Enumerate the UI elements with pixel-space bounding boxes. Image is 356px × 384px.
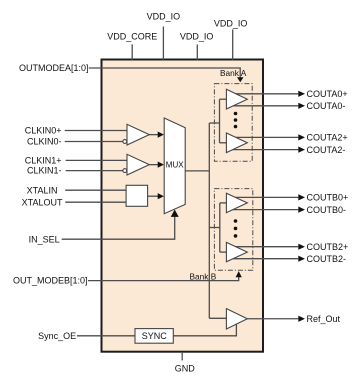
svg-text:CLKIN1+: CLKIN1+: [25, 156, 62, 166]
wire COUTA2-: [230, 149, 298, 151]
arrowhead COUTA2-: [298, 147, 305, 153]
svg-text:IN_SEL: IN_SEL: [29, 234, 60, 244]
arrowhead COUTB2+: [298, 244, 305, 250]
arrowhead COUTB0+: [298, 194, 305, 200]
arrowhead buffer0 to MUX: [158, 132, 164, 138]
wire COUTB2-: [230, 258, 298, 260]
wire IN_SEL to MUX select: [62, 216, 175, 239]
wire buffer0 to MUX: [149, 134, 158, 136]
svg-text:XTALOUT: XTALOUT: [22, 197, 63, 207]
wire MUX output to trunk: [185, 170, 209, 172]
svg-text:COUTA0-: COUTA0-: [307, 101, 346, 111]
chip body U1: [102, 60, 264, 352]
arrowhead into Bank A: [237, 77, 244, 82]
svg-text:COUTA2+: COUTA2+: [307, 133, 348, 143]
wire CLKIN1+: [66, 159, 127, 161]
svg-text:SYNC: SYNC: [142, 331, 168, 341]
buffer input CLKIN0: [127, 124, 149, 145]
arrowhead buffer1 to MUX: [158, 162, 164, 168]
wire feed to buffer B2: [220, 251, 227, 253]
arrowhead COUTA0+: [298, 91, 305, 97]
svg-text:Bank B: Bank B: [190, 271, 217, 281]
wire Ref_Out: [247, 318, 298, 320]
dots bank A: [234, 112, 238, 129]
wire COUTB2+: [230, 246, 298, 248]
svg-text:VDD_CORE: VDD_CORE: [107, 32, 157, 42]
crystal cell XTAL: [126, 185, 148, 206]
wire Sync_OE: [77, 335, 135, 337]
wire XTAL to MUX: [148, 195, 158, 197]
svg-text:VDD_IO: VDD_IO: [147, 12, 181, 22]
wire XTALOUT: [65, 201, 126, 203]
wire CLKIN0+: [65, 130, 127, 132]
svg-text:COUTA2-: COUTA2-: [307, 145, 346, 155]
buffer A0: [226, 89, 247, 109]
wire bank A feed vertical: [219, 99, 221, 143]
svg-text:COUTB2+: COUTB2+: [307, 242, 349, 252]
svg-text:XTALIN: XTALIN: [27, 185, 58, 195]
svg-text:GND: GND: [175, 363, 196, 373]
wire COUTA0+: [230, 93, 298, 95]
inversion bubble CLKIN0-: [123, 140, 127, 144]
svg-text:MUX: MUX: [166, 160, 184, 169]
wire feed to buffer A2: [220, 142, 227, 144]
arrowhead into Bank B: [236, 271, 242, 277]
buffer B2: [226, 242, 247, 261]
svg-text:CLKIN1-: CLKIN1-: [27, 166, 62, 176]
wire trunk vertical: [208, 123, 210, 318]
svg-text:VDD_IO: VDD_IO: [180, 32, 214, 42]
svg-text:VDD_IO: VDD_IO: [214, 18, 248, 28]
wire trunk to Ref_Out buffer: [209, 317, 226, 319]
arrowhead COUTA0-: [298, 103, 305, 109]
bank A dashed box: [214, 84, 252, 162]
buffer input CLKIN1: [127, 154, 149, 175]
arrowhead XTAL to MUX: [158, 193, 164, 199]
wire SYNC to Ref_Out buffer: [173, 324, 236, 336]
wire buffer1 to MUX: [149, 164, 158, 166]
sync cell SYNC: [135, 329, 173, 344]
svg-text:Bank A: Bank A: [220, 68, 247, 78]
wire CLKIN0-: [65, 141, 123, 143]
wire trunk to bank A feed: [209, 122, 219, 124]
wire COUTA0-: [230, 105, 298, 107]
svg-text:CLKIN0+: CLKIN0+: [25, 126, 62, 136]
svg-text:COUTA0+: COUTA0+: [307, 89, 348, 99]
wire feed to buffer A0: [220, 98, 227, 100]
wire COUTB0-: [230, 209, 298, 211]
inversion bubble CLKIN1-: [123, 169, 127, 173]
wire feed to buffer B0: [220, 202, 227, 204]
svg-text:OUT_MODEB[1:0]: OUT_MODEB[1:0]: [13, 276, 88, 286]
wire GND pin: [181, 352, 183, 360]
dots bank B: [234, 219, 238, 238]
arrowhead COUTB2-: [298, 256, 305, 262]
wire bank B feed vertical: [219, 203, 221, 252]
svg-text:Ref_Out: Ref_Out: [307, 314, 341, 324]
wire OUT_MODEB to Bank B: [88, 276, 239, 280]
buffer B0: [226, 193, 247, 212]
wire VDD_CORE pin: [131, 44, 133, 60]
wire VDD_IO pin 3: [232, 30, 234, 61]
arrowhead COUTB0-: [298, 207, 305, 213]
wire CLKIN1-: [66, 170, 123, 172]
svg-text:COUTB0-: COUTB0-: [307, 205, 347, 215]
wire trunk to bank B feed: [209, 227, 220, 229]
arrowhead IN_SEL into MUX: [171, 210, 179, 217]
wire XTALIN: [65, 189, 126, 191]
buffer A2: [226, 133, 247, 153]
buffer Ref_Out: [226, 309, 247, 329]
svg-text:CLKIN0-: CLKIN0-: [27, 137, 62, 147]
svg-text:COUTB2-: COUTB2-: [307, 254, 347, 264]
svg-text:COUTB0+: COUTB0+: [307, 193, 349, 203]
arrowhead Ref_Out: [298, 316, 305, 322]
svg-text:OUTMODEA[1:0]: OUTMODEA[1:0]: [19, 63, 89, 73]
svg-text:Sync_OE: Sync_OE: [38, 331, 76, 341]
wire VDD_IO pin 1: [162, 27, 164, 61]
wire COUTA2+: [230, 136, 298, 138]
arrowhead COUTA2+: [298, 134, 305, 140]
wire VDD_IO pin 2: [196, 44, 198, 60]
mux U2: [164, 118, 185, 214]
bank B dashed box: [214, 189, 252, 271]
wire OUTMODEA to Bank A: [89, 68, 241, 78]
wire COUTB0+: [230, 196, 298, 198]
